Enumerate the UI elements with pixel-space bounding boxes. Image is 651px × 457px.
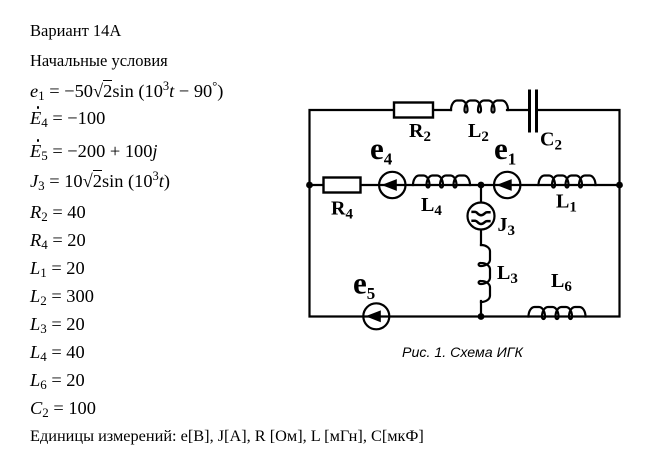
svg-text:L1: L1 xyxy=(556,191,577,216)
svg-text:e4: e4 xyxy=(370,131,393,169)
svg-text:e5: e5 xyxy=(353,266,375,304)
svg-text:R2: R2 xyxy=(409,120,431,145)
svg-text:L2: L2 xyxy=(468,120,489,145)
svg-text:C2: C2 xyxy=(540,129,562,154)
svg-text:e1: e1 xyxy=(494,131,516,169)
svg-text:L6: L6 xyxy=(551,270,572,295)
svg-text:L3: L3 xyxy=(497,262,518,287)
svg-text:J3: J3 xyxy=(498,214,516,239)
svg-text:L4: L4 xyxy=(421,194,442,219)
svg-text:R4: R4 xyxy=(331,198,353,223)
